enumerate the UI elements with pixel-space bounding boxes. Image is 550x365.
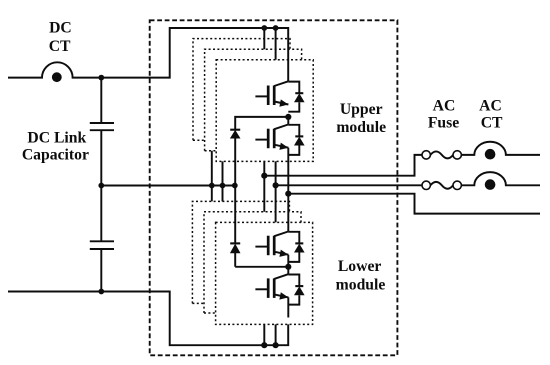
svg-text:CT: CT	[49, 38, 71, 55]
svg-text:DC Link: DC Link	[27, 130, 86, 147]
svg-text:Fuse: Fuse	[428, 115, 459, 132]
svg-text:module: module	[336, 276, 386, 293]
svg-text:CT: CT	[481, 115, 503, 132]
svg-text:Upper: Upper	[340, 101, 383, 118]
svg-text:module: module	[336, 119, 386, 136]
svg-text:AC: AC	[433, 98, 456, 115]
svg-text:AC: AC	[479, 98, 502, 115]
svg-text:Lower: Lower	[338, 258, 382, 275]
svg-text:DC: DC	[49, 19, 72, 36]
svg-text:Capacitor: Capacitor	[22, 146, 89, 163]
